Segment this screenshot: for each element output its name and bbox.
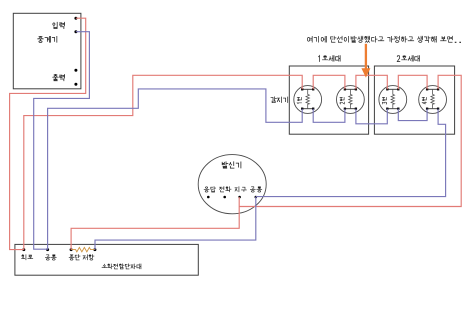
- terminal dot 지구 (zone): [238, 196, 241, 199]
- smoke detector D1 (1번 감지기): [294, 86, 322, 114]
- label 공통 terminal: [45, 255, 56, 260]
- label 1번 on detector D1: [297, 97, 301, 103]
- label 2번 on detector D2: [340, 97, 344, 104]
- manual call point P1 (발신기): [198, 155, 266, 214]
- orange break-point arrow: [361, 44, 370, 78]
- wire: blue from 공통 terminal up and across to detector D1 pin 3: [48, 89, 303, 250]
- label 회로 terminal: [22, 255, 33, 260]
- wire: blue from P1 공통 terminal down to EOL resistor right: [95, 197, 256, 250]
- label 발신기 on P1: [222, 162, 241, 168]
- label 3번 on detector D3: [382, 97, 386, 104]
- wire: red from 회로 terminal up and across to detector D1 pin 1: [24, 75, 302, 249]
- wire: red hop D3 pin2 to D4 pin1: [398, 75, 427, 89]
- terminal dot U1 output +: [74, 69, 77, 72]
- wire: blue hop D3 pin4 to D4 pin3: [398, 109, 427, 121]
- wire: blue hop D2 pin4 to D3 pin3: [356, 109, 387, 124]
- terminal dot EOL resistor right: [93, 248, 96, 251]
- label 종단 저항 (EOL resistor): [69, 255, 94, 260]
- wire: blue common line, U1 input- down left side to 공통 terminal: [34, 32, 90, 250]
- terminal dot 공통 (common): [255, 196, 258, 199]
- terminal dot U1 input +: [74, 17, 77, 20]
- relay unit box U1 (중계기): [13, 13, 81, 89]
- smoke detector D4 (4번 감지기): [419, 86, 447, 114]
- terminal dot 전화 (phone): [223, 196, 226, 199]
- wire: red from P1 지구 terminal down to EOL resistor left: [71, 197, 239, 250]
- terminal dot 회로: [22, 248, 25, 251]
- terminal dot 응답 (answer): [207, 196, 210, 199]
- terminal dot 공통: [46, 248, 49, 251]
- label 입력 (input) on U1: [53, 22, 65, 28]
- label 중계기 (repeater) on U1: [38, 36, 57, 42]
- wire: blue hop D1 pin4 to D2 pin3: [313, 109, 345, 123]
- wire: red hop D1 pin2 to D2 pin1: [313, 75, 345, 89]
- label 4번 on detector D4: [422, 97, 426, 104]
- title 2호세대: [397, 56, 419, 62]
- terminal dot U1 input -: [74, 30, 77, 33]
- hydrant terminal block box (소화전함단자대): [15, 244, 198, 275]
- wire: red zone line, U1 input+ down left side to 회로 terminal: [10, 18, 86, 249]
- annotation text 여기에 단선이 발생했다고 가정하고 생각해 보면..: [307, 36, 460, 42]
- title 1호세대: [319, 56, 341, 62]
- label 출력 (output) on U1: [53, 75, 65, 81]
- wire: blue from D4 pin4 down right side to P1 공통 terminal: [256, 109, 446, 197]
- household box 2 (2호세대): [374, 66, 454, 134]
- wire: red hop D2 pin2 to D3 pin1 (break point): [356, 75, 387, 89]
- label 감지기 (detectors): [271, 97, 288, 103]
- terminal dot EOL resistor left: [70, 248, 73, 251]
- label 소화전함단자대: [102, 264, 141, 269]
- household box 1 (1호세대): [289, 66, 368, 134]
- labels 응답 전화 지구 공통 on P1: [204, 187, 262, 192]
- smoke detector D3 (3번 감지기): [379, 86, 407, 114]
- wire: red from D4 pin2 down right side to P1 지구 terminal: [239, 75, 461, 206]
- smoke detector D2 (2번 감지기): [337, 86, 365, 114]
- EOL resistor R1 (종단저항): [71, 247, 95, 251]
- terminal dot U1 output -: [74, 83, 77, 86]
